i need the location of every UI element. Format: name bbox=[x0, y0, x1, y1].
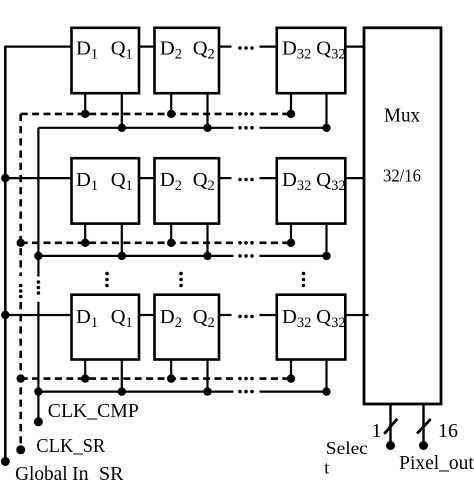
ellipsis row1 solid clk line bbox=[238, 126, 254, 130]
wire row2 CLK_SR dashed line right segment bbox=[260, 242, 292, 245]
register U8 (row3 D2/Q2) bbox=[155, 295, 220, 360]
wire row1 Q32 to Mux bbox=[345, 45, 364, 47]
svg-text:Q32: Q32 bbox=[316, 169, 345, 194]
ellipsis row2 solid clk line bbox=[238, 254, 254, 258]
svg-text:CLK_SR: CLK_SR bbox=[36, 435, 106, 457]
pin row2 U6 clk-sr bbox=[290, 224, 292, 243]
pin row1 U2 clk-sr bbox=[170, 93, 172, 114]
register U3 (row1 D32/Q32) bbox=[277, 28, 346, 93]
ellipsis row3 solid clk line bbox=[238, 390, 254, 394]
junction row2 U4/solid bbox=[118, 252, 126, 260]
svg-text:Selec: Selec bbox=[326, 438, 368, 458]
ellipsis row3 dashed line bbox=[238, 377, 254, 381]
wire row1 input to D1 bbox=[4, 45, 71, 47]
svg-text:In: In bbox=[72, 463, 89, 485]
svg-text:32/16: 32/16 bbox=[383, 166, 421, 186]
junction row3 dashed vertical bbox=[17, 374, 25, 382]
pin mux out 1 bbox=[389, 404, 391, 446]
svg-text:Q32: Q32 bbox=[316, 306, 345, 331]
svg-text:Q1: Q1 bbox=[111, 306, 133, 331]
register U9 (row3 D32/Q32) bbox=[277, 295, 346, 360]
junction row2 U4/dashed bbox=[81, 239, 89, 247]
pin row2 U4 clk-cmp bbox=[121, 224, 123, 256]
node Global_In_SR terminal bbox=[1, 457, 10, 466]
pin mux out 16 bbox=[422, 404, 424, 446]
junction row3 U8/dashed bbox=[167, 374, 175, 382]
node pixel_out terminal 16 bbox=[419, 441, 428, 450]
svg-text:Mux: Mux bbox=[384, 104, 420, 126]
svg-text:Q1: Q1 bbox=[111, 38, 133, 63]
wire row2 Q2 stub bbox=[219, 177, 232, 179]
svg-text:t: t bbox=[324, 458, 329, 478]
junction row1 U3/dashed bbox=[287, 110, 295, 118]
junction row3 input vertical bbox=[1, 311, 9, 319]
wire row1 Q2 stub bbox=[219, 45, 232, 47]
wire row3 input to D1 bbox=[4, 314, 71, 316]
wire CLK_SR dashed vertical upper bbox=[19, 114, 22, 276]
svg-text:D1: D1 bbox=[76, 169, 98, 194]
wire row2 into D32 bbox=[260, 177, 277, 179]
ellipsis row2 dashed line bbox=[238, 241, 254, 245]
pin row1 U3 clk-cmp bbox=[325, 93, 327, 128]
junction row1 U1/solid bbox=[118, 124, 126, 132]
wire row1 Q1 to D2 bbox=[139, 45, 155, 47]
svg-text:D1: D1 bbox=[76, 306, 98, 331]
pin row1 U1 clk-cmp bbox=[121, 93, 123, 128]
register U2 (row1 D2/Q2) bbox=[155, 28, 220, 93]
ellipsis row1 data wire bbox=[238, 46, 254, 50]
pin row3 U9 clk-cmp bbox=[325, 360, 327, 392]
wire row3 Q32 to Mux bbox=[345, 314, 368, 316]
wire row3 CLK_SR dashed line left segment bbox=[21, 377, 234, 380]
wire row1 CLK_CMP solid line right segment bbox=[260, 127, 327, 129]
junction row1 U2/solid bbox=[203, 124, 211, 132]
svg-text:Pixel_out: Pixel_out bbox=[399, 453, 474, 474]
wire row1 CLK_SR dashed line left segment bbox=[21, 113, 234, 116]
ellipsis CLK_SR vertical bbox=[19, 284, 23, 299]
svg-text:CLK_CMP: CLK_CMP bbox=[48, 400, 139, 422]
junction row2 U6/dashed bbox=[287, 239, 295, 247]
pin row2 U6 clk-cmp bbox=[325, 224, 327, 256]
node pixel_out terminal 1 bbox=[386, 441, 395, 450]
wire CLK_CMP solid vertical lower bbox=[37, 302, 39, 422]
svg-text:Q2: Q2 bbox=[193, 306, 215, 331]
ellipsis column U3 bbox=[302, 272, 306, 288]
register U5 (row2 D2/Q2) bbox=[155, 158, 220, 223]
svg-text:D2: D2 bbox=[160, 38, 182, 63]
junction row3 U8/solid bbox=[203, 387, 211, 395]
register U4 (row2 D1/Q1) bbox=[72, 158, 140, 223]
ellipsis column U1 bbox=[105, 272, 109, 288]
wire row2 input to D1 bbox=[4, 177, 71, 179]
register U7 (row3 D1/Q1) bbox=[72, 295, 140, 360]
pin row3 U8 clk-cmp bbox=[206, 360, 208, 392]
junction row1 U2/dashed bbox=[167, 110, 175, 118]
pin row2 U5 clk-cmp bbox=[206, 224, 208, 256]
wire row3 Q1 to D2 bbox=[139, 314, 155, 316]
svg-text:SR: SR bbox=[99, 463, 124, 485]
pin row2 U5 clk-sr bbox=[170, 224, 172, 243]
junction row1 U3/solid bbox=[322, 124, 330, 132]
junction row2 dashed vertical bbox=[17, 239, 25, 247]
junction row2 U5/solid bbox=[203, 252, 211, 260]
wire row2 CLK_CMP solid line right segment bbox=[260, 255, 327, 257]
wire row3 CLK_SR dashed line right segment bbox=[260, 377, 292, 380]
svg-text:D2: D2 bbox=[160, 169, 182, 194]
register U6 (row2 D32/Q32) bbox=[277, 158, 346, 223]
svg-text:1: 1 bbox=[372, 420, 382, 442]
mux block Mux 32/16 bbox=[364, 28, 441, 404]
ellipsis row2 data wire bbox=[238, 178, 254, 182]
wire Global_In_SR vertical trunk bbox=[4, 47, 7, 462]
junction row3 U9/dashed bbox=[287, 374, 295, 382]
pin row1 U3 clk-sr bbox=[290, 93, 292, 114]
wire row3 CLK_CMP solid line left segment bbox=[38, 391, 233, 393]
node CLK_CMP terminal bbox=[34, 417, 43, 426]
pin row1 U1 clk-sr bbox=[84, 93, 86, 114]
junction row3 U7/solid bbox=[118, 387, 126, 395]
svg-text:D32: D32 bbox=[282, 38, 311, 63]
bus slash pin16 bbox=[417, 419, 431, 433]
wire row1 CLK_SR dashed line right segment bbox=[260, 113, 292, 116]
wire row2 CLK_CMP solid line left segment bbox=[38, 255, 233, 257]
junction row2 U5/dashed bbox=[167, 239, 175, 247]
svg-text:D2: D2 bbox=[160, 306, 182, 331]
pin row3 U7 clk-sr bbox=[84, 360, 86, 379]
svg-text:Q2: Q2 bbox=[193, 169, 215, 194]
junction row2 solid vertical bbox=[34, 252, 42, 260]
pin row3 U8 clk-sr bbox=[170, 360, 172, 379]
svg-text:D32: D32 bbox=[282, 306, 311, 331]
svg-text:Q2: Q2 bbox=[193, 38, 215, 63]
svg-text:D1: D1 bbox=[76, 38, 98, 63]
svg-text:Global: Global bbox=[15, 463, 68, 485]
register U1 (row1 D1/Q1) bbox=[72, 28, 140, 93]
bus slash pin1 bbox=[384, 419, 397, 434]
junction row2 U6/solid bbox=[322, 252, 330, 260]
junction row3 U9/solid bbox=[322, 387, 330, 395]
wire row2 Q32 to Mux bbox=[345, 177, 364, 179]
ellipsis row1 dashed line bbox=[238, 112, 254, 116]
ellipsis row3 data wire bbox=[238, 315, 254, 319]
wire row1 into D32 bbox=[260, 45, 277, 47]
wire row1 CLK_CMP solid line left segment bbox=[38, 127, 233, 129]
wire row3 CLK_CMP solid line right segment bbox=[260, 391, 327, 393]
junction row3 U7/dashed bbox=[81, 374, 89, 382]
wire CLK_SR dashed vertical lower bbox=[19, 302, 22, 450]
junction row2 input vertical bbox=[1, 174, 9, 182]
svg-text:Q1: Q1 bbox=[111, 169, 133, 194]
pin row3 U9 clk-sr bbox=[290, 360, 292, 379]
svg-text:Q32: Q32 bbox=[316, 38, 345, 63]
junction row1 U1/dashed bbox=[81, 110, 89, 118]
node CLK_SR terminal bbox=[16, 445, 25, 454]
wire CLK_CMP solid vertical upper bbox=[37, 128, 39, 277]
wire row2 Q1 to D2 bbox=[139, 177, 155, 179]
ellipsis column U2 bbox=[179, 272, 183, 288]
ellipsis CLK_CMP vertical bbox=[37, 280, 41, 295]
svg-text:D32: D32 bbox=[282, 169, 311, 194]
wire row2 CLK_SR dashed line left segment bbox=[21, 242, 234, 245]
pin row2 U4 clk-sr bbox=[84, 224, 86, 243]
pin row3 U7 clk-cmp bbox=[121, 360, 123, 392]
wire row3 into D32 bbox=[260, 314, 277, 316]
junction row3 solid vertical bbox=[34, 387, 42, 395]
wire row3 Q2 stub bbox=[219, 314, 232, 316]
pin row1 U2 clk-cmp bbox=[206, 93, 208, 128]
svg-text:16: 16 bbox=[438, 420, 458, 442]
